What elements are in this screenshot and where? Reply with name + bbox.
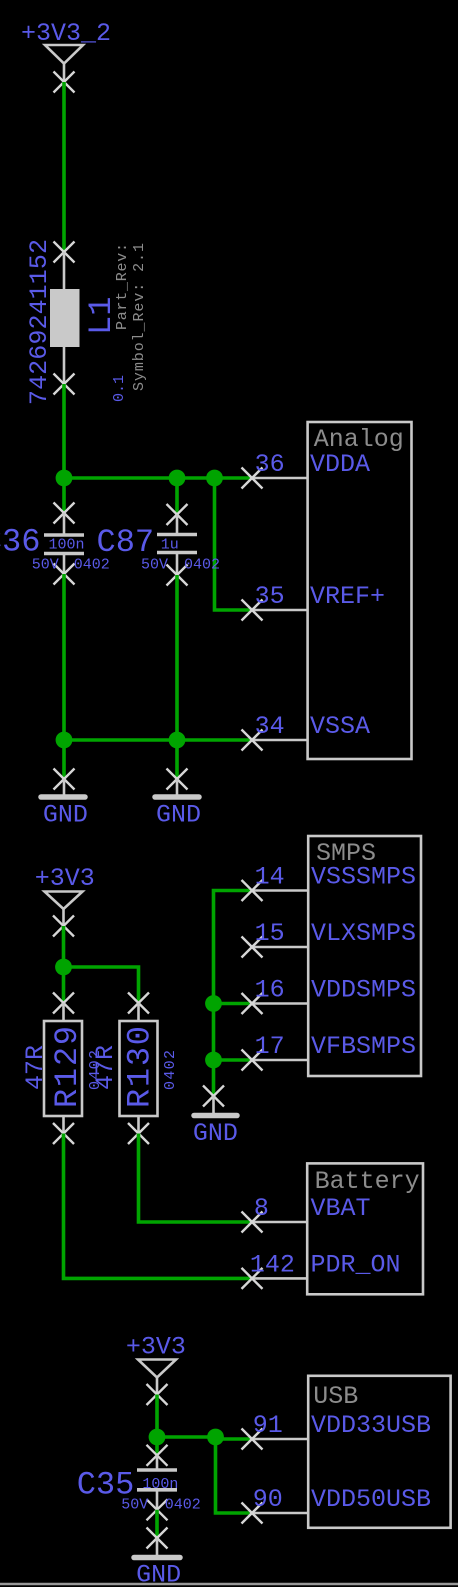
wire L1 to VDDA rail: [62, 384, 66, 478]
ground GND USB: [134, 1528, 181, 1587]
wire C87 to ground bus: [175, 575, 179, 740]
svg-text:15: 15: [255, 919, 285, 948]
svg-text:34: 34: [255, 712, 285, 741]
svg-text:+3V3: +3V3: [35, 864, 95, 893]
svg-text:50V: 50V: [32, 557, 59, 574]
svg-text:91: 91: [253, 1411, 283, 1440]
svg-text:Battery: Battery: [315, 1167, 420, 1196]
pin 36 VDDA: [242, 450, 371, 489]
svg-text:50V: 50V: [141, 557, 168, 574]
sheet border bottom: [0, 1583, 458, 1586]
svg-text:VDDA: VDDA: [310, 450, 370, 479]
svg-text:USB: USB: [313, 1382, 358, 1411]
pin 142 PDR_ON: [242, 1250, 401, 1289]
wire to USB pins: [157, 1437, 216, 1439]
svg-text:VSSA: VSSA: [310, 712, 370, 741]
power symbol +3V3 (USB): [126, 1333, 186, 1406]
wire stub to VFBSMPS: [214, 1058, 253, 1062]
svg-text:90: 90: [253, 1485, 283, 1514]
svg-text:14: 14: [255, 863, 285, 892]
svg-text:16: 16: [255, 976, 285, 1005]
svg-text:0.1: 0.1: [111, 375, 128, 402]
wire VSSSMPS net: [214, 891, 253, 1061]
svg-text:VLXSMPS: VLXSMPS: [311, 919, 416, 948]
junction at C87 top: [169, 470, 186, 487]
svg-text:+3V3: +3V3: [126, 1333, 186, 1362]
wire to SMPS ground: [212, 1060, 216, 1096]
wire +3V3 to C35: [155, 1395, 159, 1456]
junction at VREF+ branch: [206, 470, 223, 487]
svg-text:VDD33USB: VDD33USB: [311, 1411, 431, 1440]
svg-text:Part_Rev:: Part_Rev:: [114, 243, 131, 330]
svg-text:1u: 1u: [161, 537, 179, 554]
capacitor C35: [137, 1445, 177, 1521]
svg-text:50V: 50V: [121, 1497, 148, 1514]
junction +3V3 branch: [55, 959, 72, 976]
wire R130 to VBAT: [139, 1134, 253, 1223]
svg-text:0402: 0402: [165, 1497, 201, 1514]
wire +3V3_2 to L1: [62, 82, 66, 252]
junction at VFBSMPS: [205, 1052, 222, 1069]
pin 34 VSSA: [242, 712, 371, 751]
Analog block U?: [308, 422, 412, 759]
svg-text:R129: R129: [49, 1026, 86, 1108]
svg-text:GND: GND: [193, 1119, 238, 1148]
SMPS block: [308, 836, 421, 1076]
svg-text:47R: 47R: [91, 1045, 120, 1090]
power symbol +3V3_2: [21, 19, 111, 93]
pin 17 VFBSMPS: [242, 1032, 417, 1071]
svg-text:142: 142: [250, 1250, 295, 1279]
pin 16 VDDSMPS: [242, 976, 417, 1015]
svg-text:GND: GND: [43, 801, 88, 830]
svg-text:C36: C36: [0, 524, 40, 561]
svg-text:17: 17: [255, 1032, 285, 1061]
wire C36 to ground bus: [62, 574, 66, 740]
svg-text:GND: GND: [156, 801, 201, 830]
svg-text:VDDSMPS: VDDSMPS: [311, 976, 416, 1005]
wire stub to VDDSMPS: [214, 1002, 253, 1006]
resistor R129: [44, 993, 82, 1145]
svg-text:8: 8: [254, 1194, 269, 1223]
svg-text:0402: 0402: [184, 557, 220, 574]
junction at VDDSMPS: [205, 995, 222, 1012]
wire +3V3 to R129: [62, 926, 66, 1003]
junction ground bus left: [56, 732, 73, 749]
svg-text:VREF+: VREF+: [310, 582, 385, 611]
junction above C35: [149, 1429, 166, 1446]
wire branch to VDD50USB: [216, 1439, 253, 1513]
pin 14 VSSSMPS: [242, 863, 417, 902]
svg-text:+3V3_2: +3V3_2: [21, 19, 111, 48]
svg-text:35: 35: [255, 582, 285, 611]
svg-text:C87: C87: [97, 524, 155, 561]
svg-text:0402: 0402: [162, 1050, 179, 1090]
pin 91 VDD33USB: [242, 1411, 432, 1450]
capacitor C87: [157, 478, 197, 586]
wire R129 to PDR_ON: [64, 1134, 253, 1279]
ground GND 1: [41, 740, 88, 830]
ground GND 2: [155, 740, 201, 830]
junction USB branch: [207, 1429, 224, 1446]
wire rail to VREF+: [215, 478, 253, 610]
svg-text:100n: 100n: [49, 537, 85, 554]
pin 35 VREF+: [242, 582, 386, 621]
svg-text:VBAT: VBAT: [311, 1194, 371, 1223]
svg-text:74269241152: 74269241152: [25, 239, 54, 405]
svg-text:36: 36: [255, 450, 285, 479]
wire C35 to ground: [155, 1510, 159, 1538]
junction at C36 top: [56, 470, 73, 487]
wire ground bus to VSSA: [64, 738, 252, 742]
pin 15 VLXSMPS: [242, 919, 417, 958]
pin 90 VDD50USB: [242, 1485, 432, 1524]
wire VDDA rail horizontal: [64, 476, 252, 480]
USB block: [308, 1376, 450, 1528]
svg-text:100n: 100n: [142, 1476, 178, 1493]
svg-text:47R: 47R: [21, 1045, 50, 1090]
capacitor C36: [44, 478, 84, 585]
junction ground bus right: [169, 732, 186, 749]
pin 8 VBAT: [242, 1194, 371, 1233]
Battery block: [307, 1163, 423, 1294]
inductor L1: [50, 242, 80, 395]
svg-text:VSSSMPS: VSSSMPS: [311, 863, 416, 892]
resistor R130: [120, 993, 158, 1145]
svg-text:VDD50USB: VDD50USB: [311, 1485, 431, 1514]
svg-text:VFBSMPS: VFBSMPS: [311, 1032, 416, 1061]
svg-text:Symbol_Rev: 2.1: Symbol_Rev: 2.1: [131, 243, 148, 391]
wire branch to R130: [64, 967, 139, 1003]
svg-text:R130: R130: [122, 1026, 159, 1108]
wire branch to VDD33USB: [216, 1437, 253, 1441]
power symbol +3V3 (SMPS): [35, 864, 95, 937]
svg-text:PDR_ON: PDR_ON: [311, 1250, 401, 1279]
ground GND SMPS: [193, 1086, 238, 1149]
